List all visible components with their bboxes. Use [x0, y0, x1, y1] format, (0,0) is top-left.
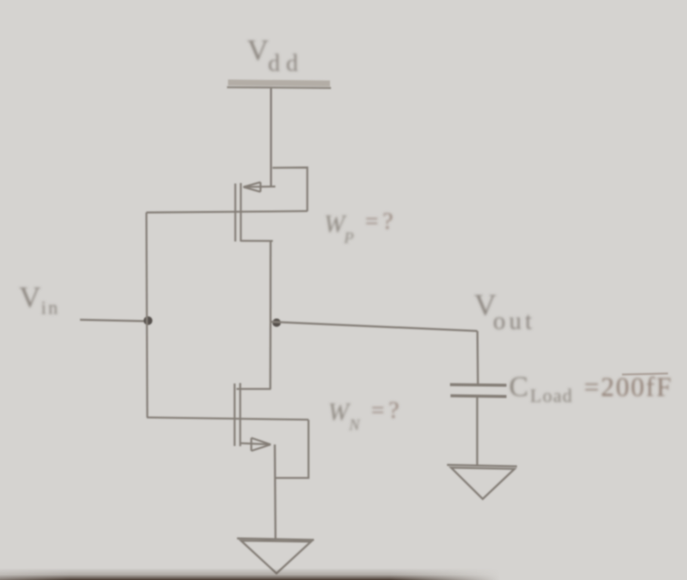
net label Vdd	[247, 34, 304, 77]
wire NMOS gate (horizontal, from input bus across to bulk)	[147, 417, 309, 419]
label C_Load = 200fF	[509, 371, 673, 407]
svg-text:=?: =?	[371, 398, 403, 424]
wire input gate bus (vertical)	[145, 213, 148, 418]
node: output junction dot	[272, 319, 280, 327]
ground symbol (load)	[447, 465, 517, 499]
svg-text:W: W	[328, 399, 351, 426]
wire Vdd rail to PMOS source	[270, 88, 272, 186]
wire Vin lead	[80, 320, 147, 322]
nmos transistor MN	[235, 383, 309, 478]
wire PMOS gate (horizontal, from input bus across to bulk)	[146, 211, 307, 212]
svg-text:C: C	[509, 371, 528, 403]
svg-text:Load: Load	[530, 386, 573, 407]
svg-text:V: V	[247, 34, 269, 67]
capacitor C_Load	[450, 385, 507, 397]
node: input junction dot	[144, 316, 153, 325]
wire NMOS source to ground	[274, 445, 277, 539]
svg-text:P: P	[343, 230, 354, 247]
label WP = ?	[324, 209, 397, 247]
svg-text:dd: dd	[268, 51, 304, 77]
svg-text:in: in	[41, 298, 60, 319]
pmos transistor MP	[235, 168, 307, 242]
svg-text:out: out	[493, 308, 535, 335]
svg-text:V: V	[19, 281, 41, 314]
label C_Load = 200fF overbar artifact	[622, 374, 668, 375]
net label Vin	[19, 281, 60, 319]
wire PMOS drain to output node	[270, 241, 272, 322]
ground symbol (NMOS source)	[237, 538, 314, 573]
svg-text:=200fF: =200fF	[584, 372, 673, 402]
wire capacitor to ground	[476, 397, 478, 466]
wire output node to NMOS drain	[269, 322, 271, 389]
svg-text:N: N	[348, 417, 361, 434]
wire Vout corner down to capacitor	[476, 331, 479, 384]
svg-text:=?: =?	[365, 209, 397, 235]
wire output node to Vout corner	[271, 322, 478, 331]
net label Vout	[474, 287, 535, 335]
Vdd supply rail bar	[227, 83, 331, 89]
label WN = ?	[328, 398, 403, 434]
